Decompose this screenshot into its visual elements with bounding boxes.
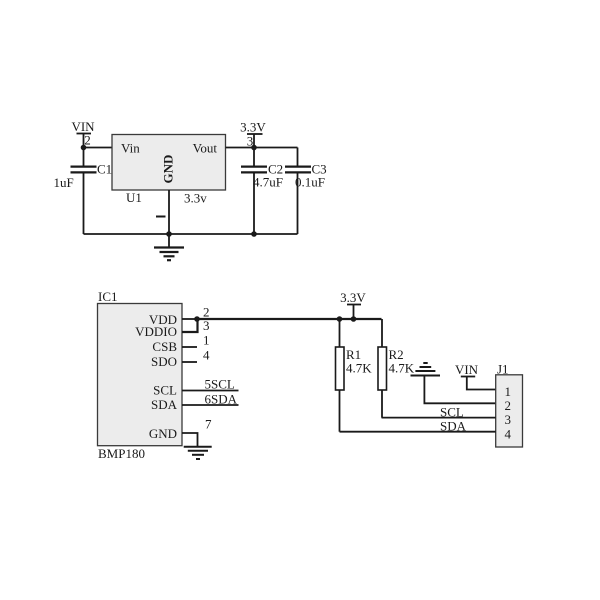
svg-text:C1: C1 — [97, 162, 112, 177]
svg-text:BMP180: BMP180 — [98, 446, 145, 461]
svg-text:2: 2 — [505, 398, 512, 413]
svg-text:3.3V: 3.3V — [240, 120, 266, 135]
resistor R2 — [378, 319, 387, 418]
wire — [182, 433, 198, 447]
wire — [297, 172, 299, 234]
svg-text:4.7uF: 4.7uF — [253, 175, 283, 190]
wire — [353, 305, 355, 320]
svg-text:4: 4 — [505, 427, 512, 442]
svg-text:3: 3 — [203, 318, 210, 333]
node VIN — [71, 119, 95, 134]
junction — [351, 316, 357, 322]
svg-text:IC1: IC1 — [98, 289, 118, 304]
svg-text:U1: U1 — [126, 190, 142, 205]
svg-text:1uF: 1uF — [54, 175, 74, 190]
svg-text:1: 1 — [203, 333, 210, 348]
wire — [197, 318, 382, 320]
svg-text:GND: GND — [149, 426, 177, 441]
svg-text:VIN: VIN — [455, 362, 479, 377]
junction — [251, 231, 257, 237]
svg-text:GND: GND — [161, 155, 176, 184]
wire — [182, 390, 239, 392]
wire — [253, 134, 255, 166]
wire — [182, 404, 239, 406]
ground — [154, 234, 184, 260]
wire — [253, 172, 255, 234]
regulator U1 — [112, 135, 226, 191]
svg-text:SCL: SCL — [153, 383, 177, 398]
capacitor C3 — [285, 167, 311, 173]
svg-text:VDDIO: VDDIO — [135, 324, 177, 339]
svg-text:7: 7 — [205, 417, 212, 432]
svg-text:1: 1 — [505, 384, 512, 399]
node VIN — [455, 362, 479, 377]
svg-text:5SCL: 5SCL — [205, 377, 235, 392]
svg-text:Vin: Vin — [121, 141, 140, 156]
connector J1 — [496, 375, 523, 447]
svg-text:4: 4 — [203, 348, 210, 363]
svg-text:3: 3 — [505, 412, 512, 427]
wire — [83, 134, 85, 167]
junction — [337, 316, 343, 322]
wire — [83, 172, 85, 234]
wire — [424, 376, 495, 404]
junction — [251, 145, 257, 151]
svg-text:Vout: Vout — [193, 141, 218, 156]
pin dash marker — [156, 216, 166, 218]
svg-text:0.1uF: 0.1uF — [295, 175, 325, 190]
wire — [297, 148, 299, 167]
resistor R1 — [336, 319, 345, 432]
svg-text:2: 2 — [84, 133, 91, 148]
wire — [382, 417, 496, 419]
node 3.3V — [240, 120, 266, 135]
wire — [226, 147, 298, 149]
svg-text:SDO: SDO — [151, 354, 177, 369]
IC IC1 (BMP180) — [98, 304, 183, 446]
svg-text:3.3v: 3.3v — [184, 191, 207, 206]
wire — [182, 346, 197, 348]
wire — [84, 233, 298, 235]
node 3.3V — [340, 290, 366, 305]
svg-text:CSB: CSB — [152, 339, 177, 354]
wire — [84, 147, 113, 149]
ground — [411, 363, 441, 376]
wire — [168, 190, 170, 234]
wire — [182, 361, 197, 363]
wire — [182, 318, 197, 320]
svg-text:SDA: SDA — [151, 397, 178, 412]
wire — [182, 319, 198, 332]
wire — [340, 431, 496, 433]
svg-text:4.7K: 4.7K — [346, 361, 372, 376]
capacitor C2 — [241, 167, 267, 173]
svg-text:4.7K: 4.7K — [389, 361, 415, 376]
junction — [194, 316, 200, 322]
capacitor C1 — [71, 167, 97, 173]
junction — [166, 231, 172, 237]
wire — [467, 377, 496, 390]
svg-text:3.3V: 3.3V — [340, 290, 366, 305]
junction — [81, 145, 87, 151]
ground — [184, 447, 212, 459]
